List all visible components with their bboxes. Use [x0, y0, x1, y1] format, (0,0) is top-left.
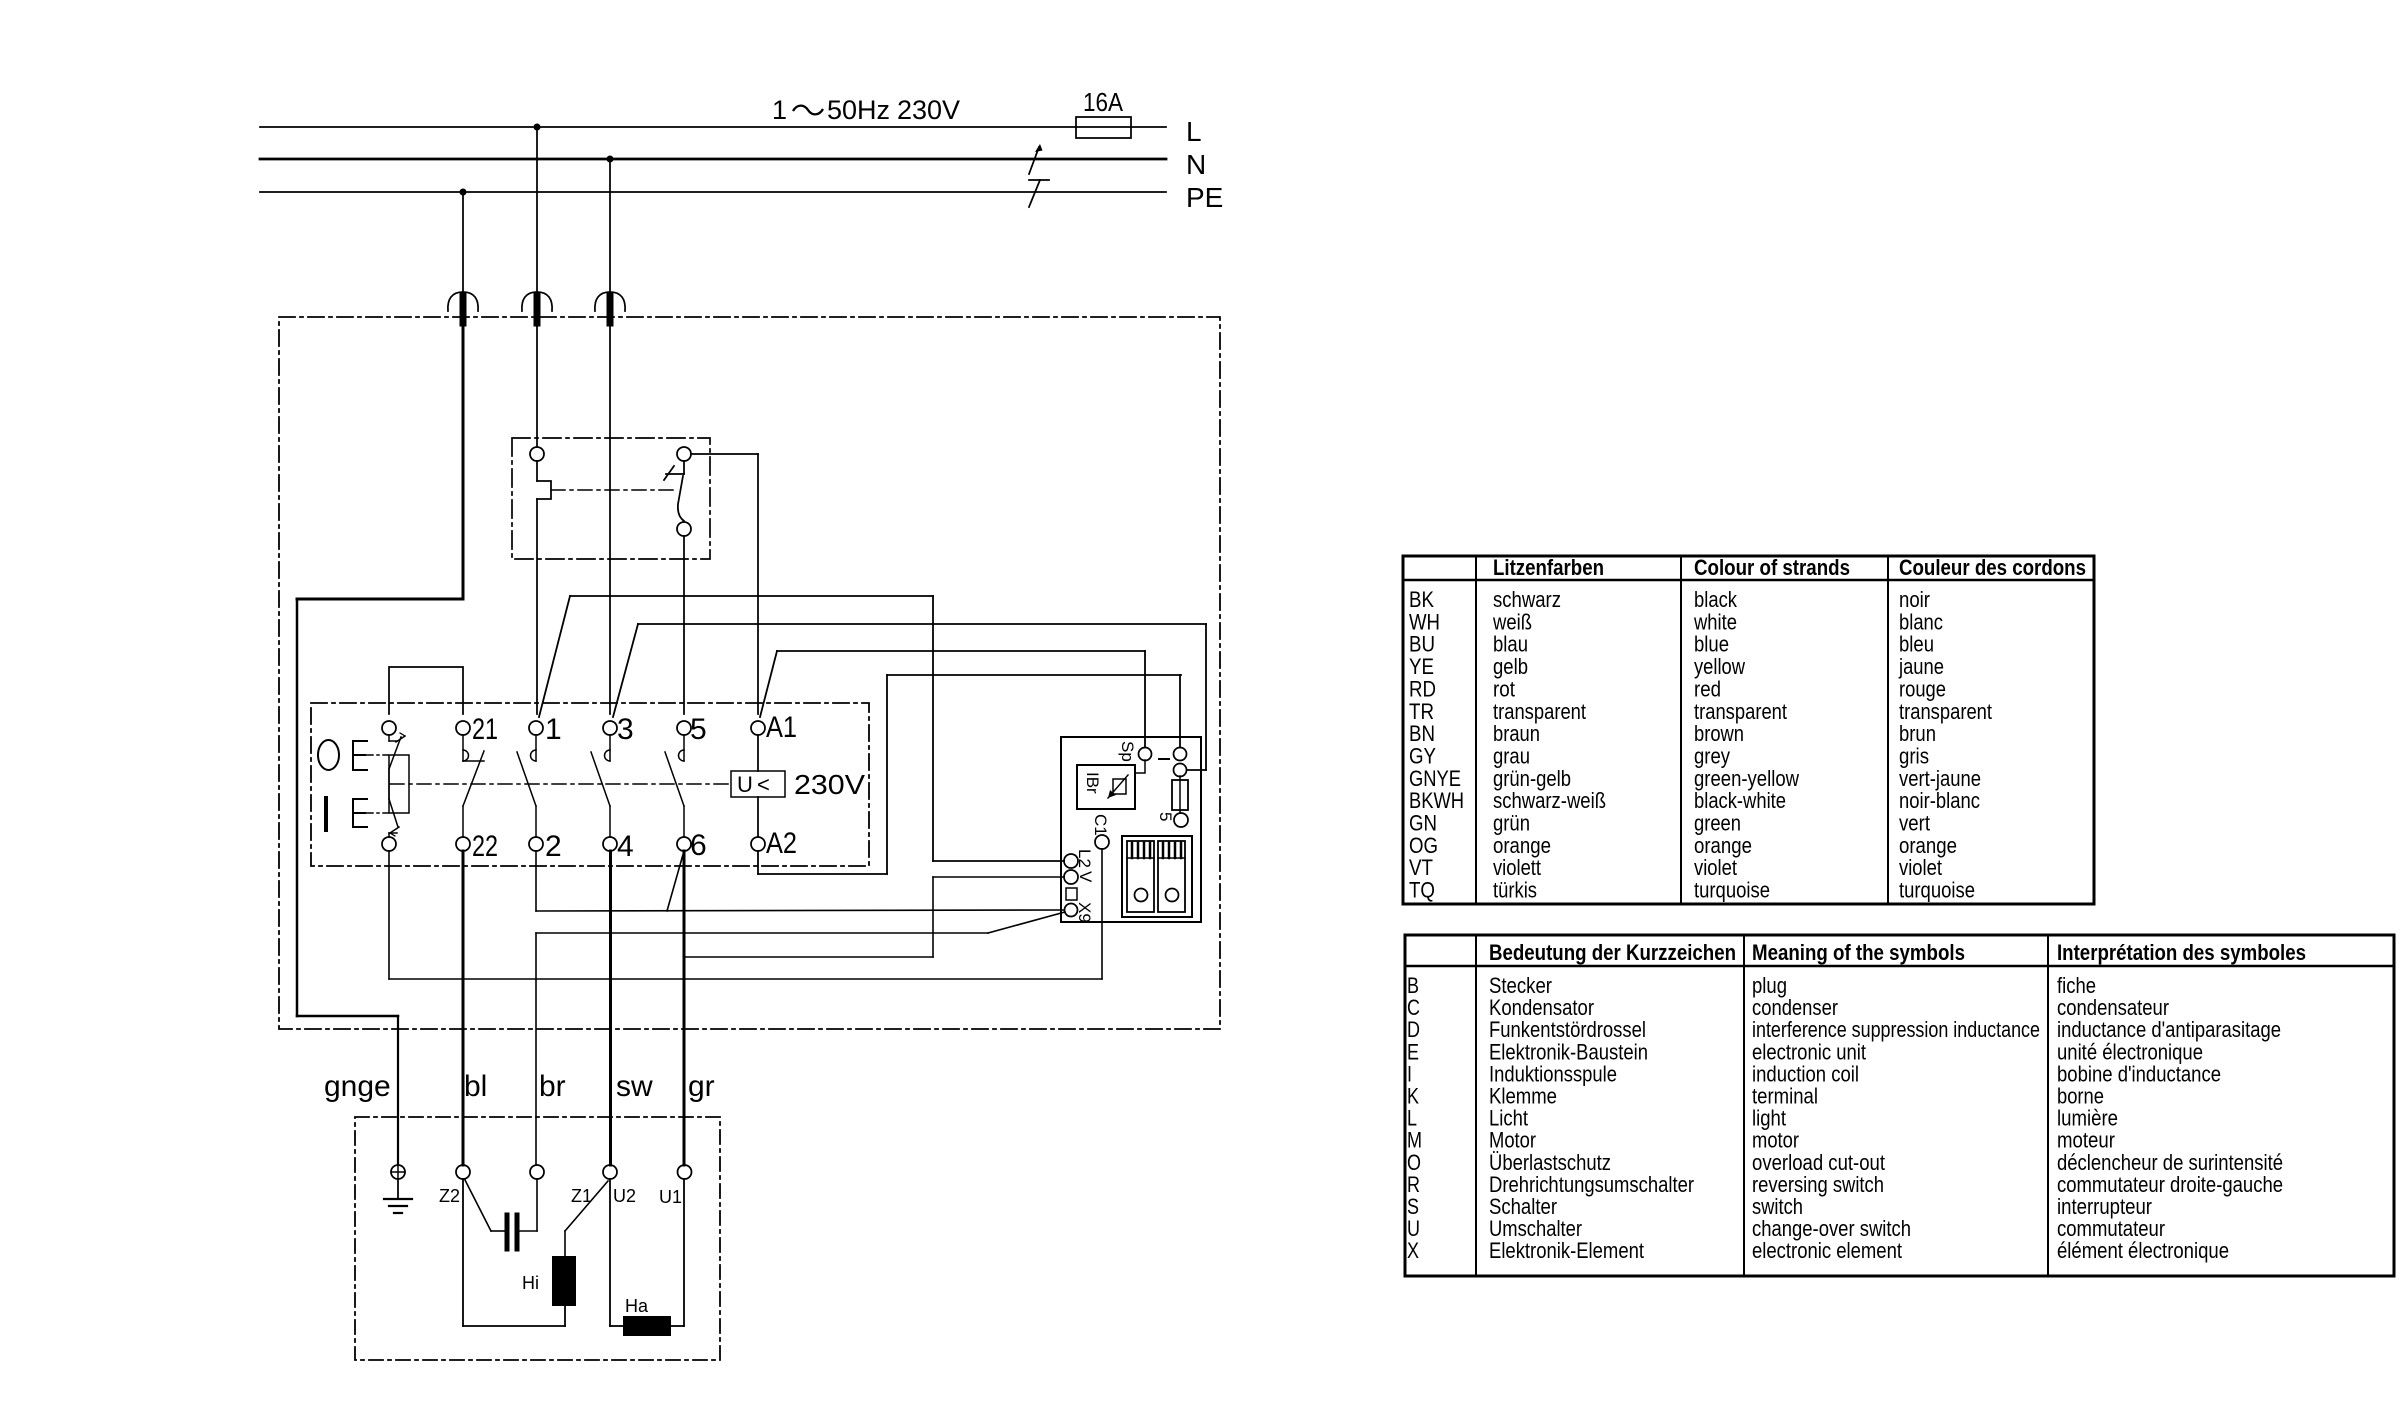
- svg-text:BN: BN: [1409, 721, 1435, 746]
- svg-text:GY: GY: [1409, 744, 1436, 769]
- svg-text:violet: violet: [1899, 855, 1942, 880]
- svg-text:Z2: Z2: [439, 1186, 460, 1206]
- svg-text:grün-gelb: grün-gelb: [1493, 766, 1571, 791]
- svg-text:rouge: rouge: [1899, 676, 1946, 701]
- svg-text:red: red: [1694, 676, 1721, 701]
- svg-text:noir: noir: [1899, 587, 1930, 612]
- svg-text:U2: U2: [613, 1186, 636, 1206]
- svg-text:gelb: gelb: [1493, 654, 1528, 679]
- svg-text:orange: orange: [1694, 833, 1752, 858]
- svg-text:1: 1: [545, 713, 562, 746]
- svg-text:Colour of strands: Colour of strands: [1694, 555, 1850, 580]
- svg-text:yellow: yellow: [1694, 654, 1745, 679]
- svg-text:transparent: transparent: [1493, 699, 1586, 724]
- svg-text:jaune: jaune: [1898, 654, 1944, 679]
- svg-text:C1: C1: [1091, 814, 1110, 836]
- svg-text:Elektronik-Element: Elektronik-Element: [1489, 1238, 1644, 1263]
- svg-text:Z1: Z1: [571, 1186, 592, 1206]
- svg-text:X9: X9: [1075, 902, 1094, 923]
- svg-text:vert: vert: [1899, 811, 1930, 836]
- svg-text:orange: orange: [1899, 833, 1957, 858]
- svg-text:V: V: [1076, 871, 1095, 883]
- svg-text:braun: braun: [1493, 721, 1540, 746]
- svg-text:BK: BK: [1409, 587, 1434, 612]
- svg-text:230V: 230V: [897, 95, 960, 125]
- svg-text:violet: violet: [1694, 855, 1737, 880]
- svg-text:4: 4: [617, 830, 634, 863]
- svg-text:rot: rot: [1493, 676, 1515, 701]
- svg-text:orange: orange: [1493, 833, 1551, 858]
- svg-text:A2: A2: [766, 827, 797, 860]
- svg-text:green: green: [1694, 811, 1741, 836]
- svg-text:5: 5: [690, 713, 707, 746]
- svg-text:3: 3: [617, 713, 634, 746]
- svg-text:grau: grau: [1493, 744, 1530, 769]
- svg-text:electronic element: electronic element: [1752, 1238, 1902, 1263]
- svg-text:16A: 16A: [1083, 87, 1124, 117]
- svg-text:brun: brun: [1899, 721, 1936, 746]
- svg-text:turquoise: turquoise: [1694, 878, 1770, 903]
- svg-text:brown: brown: [1694, 721, 1744, 746]
- svg-text:Litzenfarben: Litzenfarben: [1493, 555, 1604, 580]
- svg-text:GN: GN: [1409, 811, 1437, 836]
- svg-text:Sp: Sp: [1118, 741, 1137, 762]
- svg-text:21: 21: [472, 713, 498, 746]
- svg-text:5: 5: [1156, 812, 1175, 821]
- svg-text:schwarz: schwarz: [1493, 587, 1561, 612]
- svg-text:black: black: [1694, 587, 1738, 612]
- svg-text:Meaning of the symbols: Meaning of the symbols: [1752, 940, 1965, 965]
- svg-text:PE: PE: [1186, 182, 1223, 213]
- svg-text:br: br: [539, 1070, 566, 1103]
- svg-text:N: N: [1186, 149, 1206, 180]
- svg-text:blue: blue: [1694, 632, 1729, 657]
- svg-text:RD: RD: [1409, 676, 1436, 701]
- svg-text:U: U: [737, 772, 753, 797]
- svg-text:türkis: türkis: [1493, 878, 1537, 903]
- svg-text:X: X: [1407, 1238, 1419, 1263]
- svg-text:22: 22: [472, 830, 498, 863]
- svg-text:blanc: blanc: [1899, 609, 1943, 634]
- svg-text:Interprétation des symboles: Interprétation des symboles: [2057, 940, 2306, 965]
- svg-text:gnge: gnge: [324, 1070, 391, 1103]
- svg-text:bleu: bleu: [1899, 632, 1934, 657]
- svg-text:6: 6: [690, 829, 707, 862]
- svg-text:1: 1: [772, 95, 787, 125]
- svg-text:transparent: transparent: [1694, 699, 1787, 724]
- svg-text:white: white: [1693, 609, 1737, 634]
- svg-text:vert-jaune: vert-jaune: [1899, 766, 1981, 791]
- svg-text:élément électronique: élément électronique: [2057, 1238, 2229, 1263]
- svg-text:<: <: [757, 772, 770, 797]
- svg-text:blau: blau: [1493, 632, 1528, 657]
- svg-text:U1: U1: [659, 1187, 682, 1207]
- svg-text:Ha: Ha: [625, 1296, 649, 1316]
- svg-text:VT: VT: [1409, 855, 1433, 880]
- svg-text:BU: BU: [1409, 632, 1435, 657]
- svg-text:L2: L2: [1075, 849, 1094, 868]
- svg-text:WH: WH: [1409, 609, 1440, 634]
- svg-text:black-white: black-white: [1694, 788, 1786, 813]
- svg-text:turquoise: turquoise: [1899, 878, 1975, 903]
- svg-text:weiß: weiß: [1492, 609, 1532, 634]
- svg-text:BKWH: BKWH: [1409, 788, 1464, 813]
- svg-text:transparent: transparent: [1899, 699, 1992, 724]
- svg-text:Hi: Hi: [522, 1273, 539, 1293]
- svg-text:GNYE: GNYE: [1409, 766, 1461, 791]
- svg-text:OG: OG: [1409, 833, 1438, 858]
- svg-text:YE: YE: [1409, 654, 1434, 679]
- svg-text:violett: violett: [1493, 855, 1541, 880]
- svg-text:50Hz: 50Hz: [827, 95, 890, 125]
- svg-text:A1: A1: [766, 711, 797, 744]
- svg-text:noir-blanc: noir-blanc: [1899, 788, 1980, 813]
- svg-text:Bedeutung der Kurzzeichen: Bedeutung der Kurzzeichen: [1489, 940, 1736, 965]
- svg-text:TQ: TQ: [1409, 878, 1435, 903]
- svg-text:230V: 230V: [794, 769, 865, 800]
- svg-text:Couleur des cordons: Couleur des cordons: [1899, 555, 2086, 580]
- svg-text:green-yellow: green-yellow: [1694, 766, 1799, 791]
- svg-text:schwarz-weiß: schwarz-weiß: [1493, 788, 1606, 813]
- svg-text:grün: grün: [1493, 811, 1530, 836]
- svg-text:gr: gr: [688, 1070, 715, 1103]
- svg-text:bl: bl: [464, 1070, 487, 1103]
- svg-text:IBr: IBr: [1083, 772, 1102, 794]
- svg-text:sw: sw: [616, 1070, 653, 1103]
- svg-text:L: L: [1186, 116, 1202, 147]
- svg-text:gris: gris: [1899, 744, 1929, 769]
- svg-text:grey: grey: [1694, 744, 1730, 769]
- svg-text:TR: TR: [1409, 699, 1434, 724]
- svg-text:2: 2: [545, 830, 562, 863]
